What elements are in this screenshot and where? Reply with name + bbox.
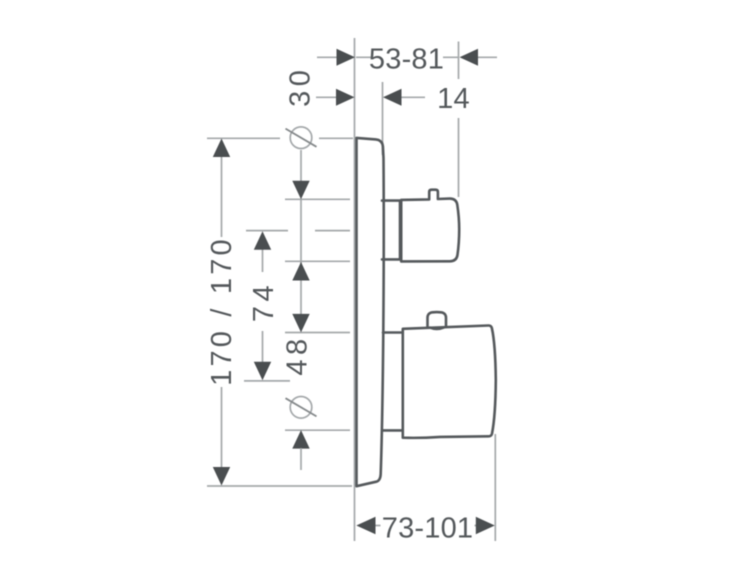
- dimension 14 left arrow: [336, 89, 355, 106]
- handle bottom extension line y=261: [285, 260, 350, 262]
- svg-text:30: 30: [285, 66, 317, 107]
- diameter 48 top arrow: [292, 314, 309, 333]
- diameter 30 top arrow: [292, 181, 309, 200]
- diameter symbol upper circle: [290, 127, 312, 149]
- handle extension line x=458.5 upper: [458, 42, 460, 80]
- dimension 73-101 left arrow: [356, 517, 375, 534]
- dimension 74 top arrow: [254, 231, 271, 250]
- diameter 48 bottom arrow: [292, 430, 309, 449]
- dimension 170/170 bottom arrow: [213, 467, 230, 486]
- svg-text:170 / 170: 170 / 170: [206, 236, 238, 386]
- diameter 48 line below: [300, 448, 302, 470]
- knob bottom extension line y=430: [285, 429, 350, 431]
- handle neck top edge: [382, 199, 400, 202]
- dimension 53-81 line: [317, 56, 497, 58]
- knob top extension line y=332.5: [285, 332, 350, 334]
- dimension 74 bottom arrow: [254, 362, 271, 381]
- knob axis extension line y=381: [244, 380, 290, 382]
- svg-text:48: 48: [282, 334, 314, 375]
- handle neck bottom edge: [382, 258, 400, 261]
- knob extension line x=495.3: [494, 434, 496, 541]
- handle extension line x=458.5 lower: [458, 118, 460, 197]
- knob tab: [428, 312, 447, 327]
- svg-text:53-81: 53-81: [369, 44, 444, 76]
- dimension 73-101 right arrow: [476, 517, 495, 534]
- svg-text:74: 74: [248, 281, 280, 322]
- dimension 14 line: [316, 96, 425, 98]
- svg-text:14: 14: [437, 83, 470, 115]
- diameter 30 line through handle: [300, 199, 302, 314]
- handle axis extension line y=230.5: [246, 230, 350, 232]
- dimension 53-81 right arrow: [460, 49, 479, 66]
- diameter 30 line above handle: [300, 150, 302, 182]
- diameter symbol upper slash: [286, 129, 317, 147]
- plate extension line x=382.5: [382, 82, 384, 155]
- plate top extension line y=138: [207, 137, 353, 139]
- knob neck top edge: [383, 331, 402, 334]
- dimension 14 right arrow: [383, 89, 402, 106]
- dimension 74 line upper: [262, 249, 264, 272]
- handle top extension line y=199: [285, 198, 350, 200]
- wall line: [354, 38, 356, 541]
- knob neck bottom edge: [383, 429, 403, 432]
- svg-text:73-101: 73-101: [382, 513, 474, 545]
- handle neck joint: [399, 202, 402, 259]
- dimension 74 line lower: [262, 331, 264, 362]
- dimension 170/170 line upper: [221, 156, 223, 237]
- dimension 53-81 left arrow: [337, 49, 356, 66]
- handle body outline: [401, 190, 459, 262]
- dimension 170/170 top arrow: [213, 139, 230, 158]
- dimension 73-101 line: [376, 525, 477, 527]
- diameter symbol lower slash: [286, 398, 317, 416]
- knob tab base: [430, 327, 444, 329]
- knob body outline: [403, 325, 496, 437]
- diameter symbol lower circle: [290, 397, 312, 419]
- diameter 30 bottom arrow: [292, 262, 309, 281]
- dimension 170/170 line lower: [221, 387, 223, 468]
- plate bottom extension line y=486: [207, 485, 352, 487]
- plate outline: [357, 138, 384, 486]
